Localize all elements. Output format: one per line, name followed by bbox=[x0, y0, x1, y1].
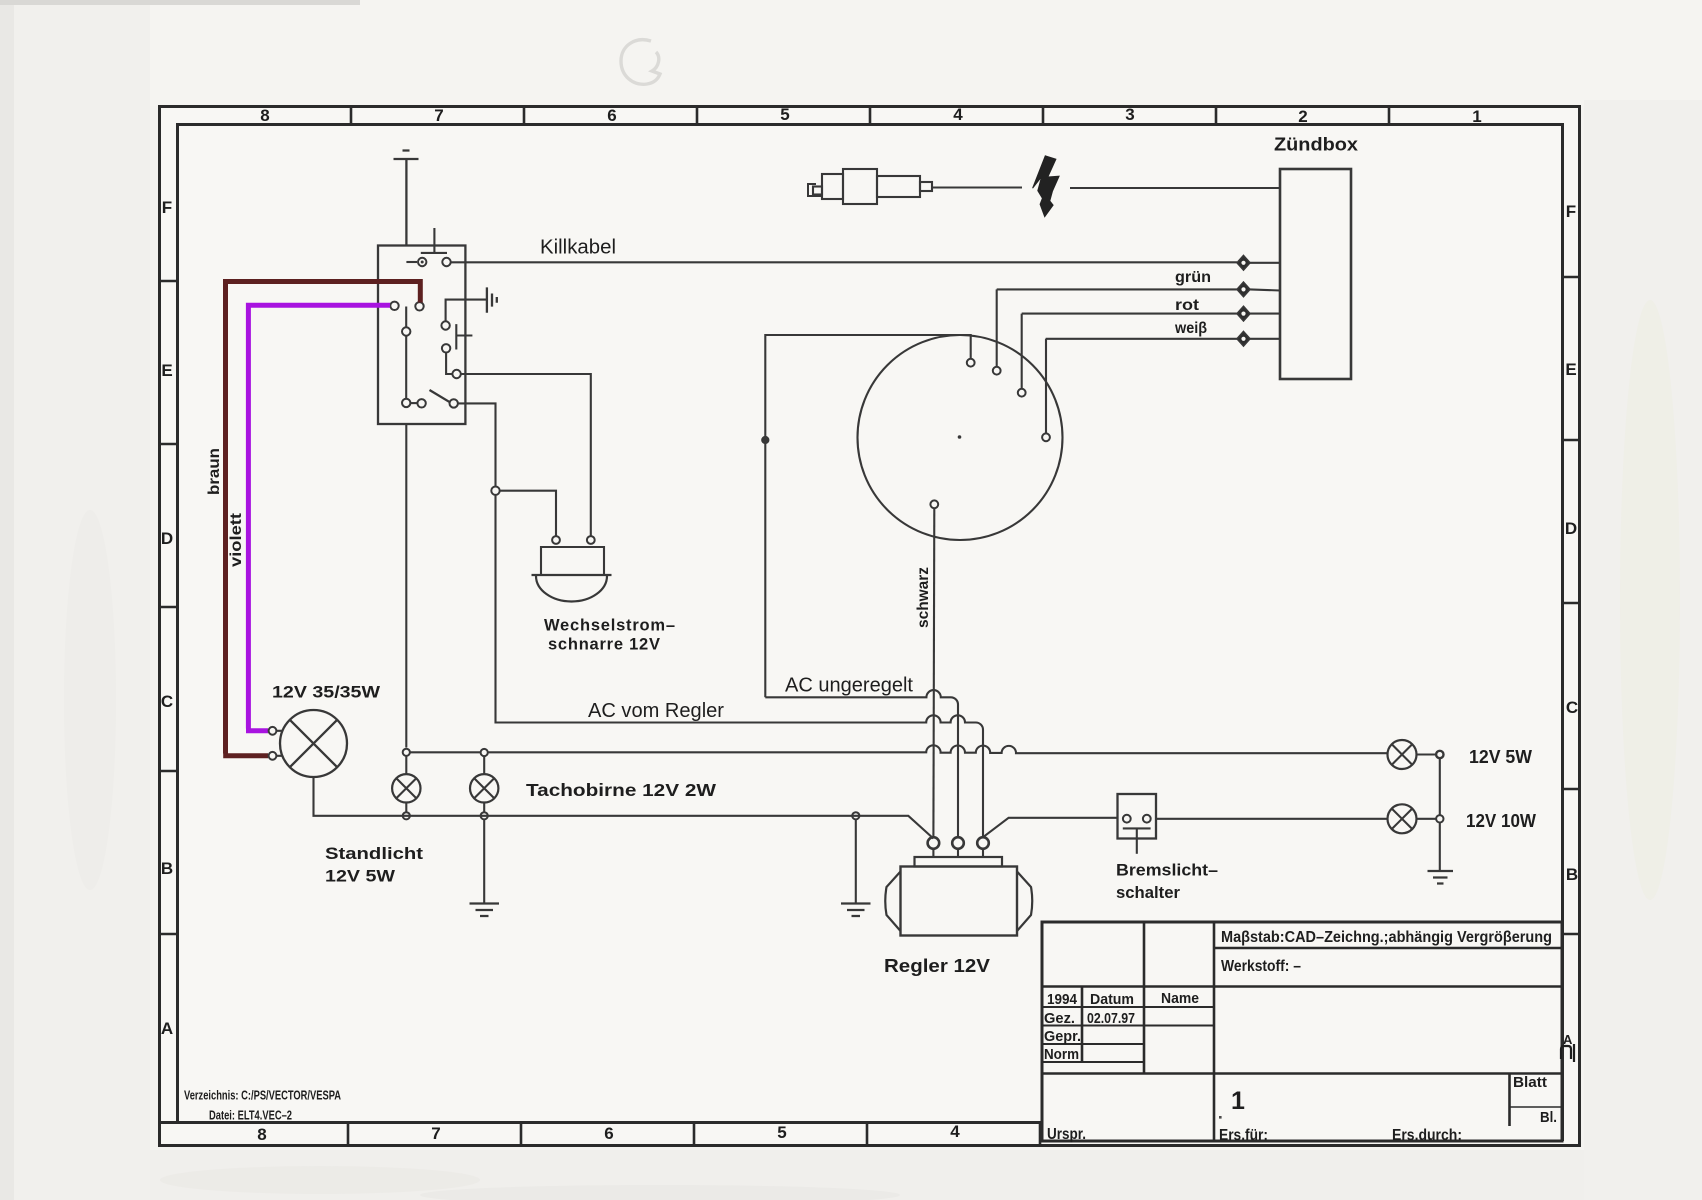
S1 terminal h bbox=[450, 399, 458, 407]
svg-text:Gez.: Gez. bbox=[1044, 1010, 1075, 1027]
node F (Tachobirne bottom) bbox=[481, 812, 488, 819]
S1 right branch: terminal i wire to ground G2 bbox=[446, 300, 486, 322]
wire T3 up to rot bbox=[1021, 314, 1023, 389]
lightning bolt (HV ignition symbol) bbox=[1033, 156, 1060, 217]
wire node B down to AC vom Regler run, to regulator pin 3 bbox=[496, 495, 984, 836]
S1 terminal b (Killkabel out) bbox=[442, 258, 450, 266]
svg-text:1: 1 bbox=[1472, 107, 1481, 126]
wire regulator pin 3 to brake light run bbox=[983, 818, 1117, 837]
ground G4 bbox=[841, 904, 871, 917]
headlight terminal 1 bbox=[269, 727, 277, 735]
svg-text:4: 4 bbox=[953, 105, 963, 124]
S1 terminal k (horn feed) bbox=[452, 370, 460, 378]
headlight lamp E1 12V 35/35W bbox=[280, 710, 347, 777]
svg-text:Verzeichnis: C:/PS/VECTOR/VESP: Verzeichnis: C:/PS/VECTOR/VESPA bbox=[184, 1089, 341, 1103]
magneto terminal T2 bbox=[993, 367, 1001, 375]
left row ticks bbox=[159, 281, 177, 934]
node C (switch wire joins lighting run) bbox=[403, 749, 410, 756]
svg-text:Blatt: Blatt bbox=[1513, 1075, 1547, 1091]
svg-text:1994: 1994 bbox=[1047, 991, 1078, 1008]
svg-text:D: D bbox=[161, 529, 173, 548]
svg-text:braun: braun bbox=[206, 448, 223, 495]
magneto / stator M1 bbox=[858, 335, 1063, 540]
regulator V1 terminal 3 bbox=[977, 837, 989, 849]
horn push button actuator bbox=[456, 324, 472, 349]
horn H1 (Wechselstromschnarre) bbox=[541, 547, 604, 575]
S2 terminal 2 bbox=[1143, 815, 1151, 823]
svg-text:violett: violett bbox=[228, 512, 245, 567]
svg-text:1: 1 bbox=[1231, 1087, 1245, 1115]
wire S1 e to bottom terminal f bbox=[405, 336, 407, 399]
svg-text:6: 6 bbox=[604, 1124, 613, 1143]
magneto terminal T4 bbox=[1042, 433, 1050, 441]
node B (junction at horn feed) bbox=[491, 487, 499, 495]
svg-text:A: A bbox=[1563, 1032, 1573, 1047]
node D (Tachobirne tap) bbox=[481, 749, 488, 756]
svg-text:12V 5W: 12V 5W bbox=[325, 867, 396, 886]
svg-text:Zündbox: Zündbox bbox=[1274, 134, 1359, 155]
S1 lever (light switch) bbox=[430, 390, 450, 402]
svg-text:Urspr.: Urspr. bbox=[1047, 1126, 1086, 1143]
svg-text:B: B bbox=[161, 859, 173, 878]
connector pin 2 (gruen) bbox=[1237, 282, 1250, 297]
S2 terminal 1 bbox=[1123, 815, 1131, 823]
svg-text:Ers.durch:: Ers.durch: bbox=[1392, 1127, 1462, 1144]
svg-text:E: E bbox=[161, 361, 172, 380]
stubs to headlight bbox=[276, 731, 281, 756]
svg-text:schwarz: schwarz bbox=[915, 567, 932, 628]
svg-text:AC vom Regler: AC vom Regler bbox=[588, 700, 724, 722]
svg-text:B: B bbox=[1566, 865, 1578, 884]
S1 terminal a (double ring) bbox=[418, 258, 426, 266]
directory note bbox=[184, 1089, 341, 1123]
svg-text:Name: Name bbox=[1161, 990, 1199, 1007]
wire rot (magneto T3 to Zuendbox) bbox=[1022, 313, 1237, 315]
wire E4 to node H bbox=[1417, 753, 1436, 755]
svg-text:C: C bbox=[161, 692, 173, 711]
push button actuator (kill button) bbox=[421, 228, 447, 253]
lamp E4 12V 5W bbox=[1388, 740, 1417, 769]
magneto terminal T5 (schwarz) bbox=[930, 500, 938, 508]
wire S1 k to horn right terminal bbox=[461, 374, 591, 536]
Zuendbox U1 bbox=[1280, 169, 1351, 379]
svg-text:Ers.für:: Ers.für: bbox=[1219, 1127, 1268, 1144]
wire braun (brown) bbox=[226, 282, 421, 754]
top column ticks bbox=[351, 106, 1389, 124]
wire S1 box bottom to node C bbox=[405, 424, 407, 748]
wire gruen (magneto T2 to Zuendbox) bbox=[997, 288, 1237, 290]
switch box S1 (handlebar light/kill switch) bbox=[378, 246, 465, 425]
horn terminal 2 bbox=[587, 536, 595, 544]
svg-text:C: C bbox=[1566, 698, 1578, 717]
svg-text:schalter: schalter bbox=[1116, 883, 1180, 902]
wire E5 to node I bbox=[1417, 818, 1437, 820]
S1 terminal c (violett) bbox=[390, 302, 398, 310]
svg-text:A: A bbox=[161, 1019, 173, 1038]
S2 contact bar bbox=[1123, 827, 1151, 829]
ground G3 bbox=[470, 904, 500, 917]
wire j to k bbox=[446, 353, 452, 375]
svg-text:Regler 12V: Regler 12V bbox=[884, 956, 990, 976]
connector pin 4 (weiss) bbox=[1237, 332, 1250, 347]
magneto terminal T3 bbox=[1018, 389, 1026, 397]
svg-text:6: 6 bbox=[607, 106, 616, 125]
svg-text:Norm: Norm bbox=[1044, 1046, 1079, 1063]
brake light switch S2 bbox=[1118, 794, 1157, 839]
wire spark plug to lightning bbox=[932, 186, 1022, 188]
ground G2 (right of switch, rotated) bbox=[487, 287, 497, 312]
S2 actuator stem bbox=[1136, 828, 1138, 853]
S1 terminal g bbox=[417, 399, 425, 407]
node G (regulator ground tap) bbox=[852, 812, 859, 819]
S1 contact arm pivot wire bbox=[405, 307, 407, 327]
wire ground into pin, S1 pin a bbox=[406, 261, 417, 263]
paper-size mark A bbox=[1561, 1032, 1574, 1062]
svg-text:8: 8 bbox=[257, 1125, 266, 1144]
wire T4 up to weiss bbox=[1045, 339, 1047, 434]
wire T1 loop: up, left, down to node A, to AC ungeregelt run bbox=[765, 335, 970, 697]
wire T2 up to gruen bbox=[996, 289, 998, 366]
wire S1 h to horn node B bbox=[458, 403, 496, 486]
svg-text:F: F bbox=[1566, 202, 1576, 221]
wire f-g link bbox=[410, 402, 417, 404]
svg-text:02.07.97: 02.07.97 bbox=[1087, 1010, 1135, 1027]
svg-text:Tachobirne 12V 2W: Tachobirne 12V 2W bbox=[526, 780, 717, 800]
wire node G to ground G4 bbox=[855, 819, 857, 903]
wire violett bbox=[248, 305, 390, 728]
svg-text:Wechselstrom–: Wechselstrom– bbox=[544, 617, 675, 635]
S1 terminal f bbox=[402, 399, 410, 407]
wire node H to ground G5 bbox=[1439, 758, 1441, 870]
lighting wire run (to 12V 5W lamp) with hops bbox=[410, 745, 1387, 753]
magneto terminal T1 bbox=[967, 359, 975, 367]
wire S2 to 12V 10W lamp bbox=[1156, 818, 1387, 820]
svg-text:4: 4 bbox=[950, 1122, 960, 1141]
wire Tachobirne to ground G3 bbox=[483, 819, 485, 903]
svg-text:5: 5 bbox=[780, 105, 789, 124]
ground G5 bbox=[1428, 871, 1454, 884]
svg-text:Bremslicht–: Bremslicht– bbox=[1116, 861, 1218, 880]
headlight terminal 2 bbox=[269, 752, 277, 760]
svg-text:Datei: ELT4.VEC–2: Datei: ELT4.VEC–2 bbox=[209, 1109, 292, 1123]
svg-text:E: E bbox=[1565, 360, 1576, 379]
svg-text:7: 7 bbox=[431, 1124, 440, 1143]
Standlicht lamp E2 bbox=[392, 774, 420, 802]
wire lightning to Zuendbox bbox=[1070, 187, 1280, 189]
svg-text:Gepr.: Gepr. bbox=[1044, 1028, 1081, 1045]
horn terminal 1 bbox=[552, 536, 560, 544]
svg-text:Werkstoff: –: Werkstoff: – bbox=[1221, 958, 1301, 975]
wire node B to horn left terminal bbox=[500, 491, 556, 536]
ground G1 above switch bbox=[394, 151, 419, 247]
node H bbox=[1436, 751, 1443, 758]
svg-text:Maβstab:CAD–Zeichng.;abhängig: Maβstab:CAD–Zeichng.;abhängig Vergröβeru… bbox=[1221, 929, 1552, 946]
svg-text:Standlicht: Standlicht bbox=[325, 844, 423, 863]
svg-text:7: 7 bbox=[434, 106, 443, 125]
title block bbox=[1042, 922, 1562, 1141]
wire node D to Tachobirne bbox=[483, 756, 485, 774]
svg-text:rot: rot bbox=[1175, 297, 1199, 314]
svg-text:5: 5 bbox=[777, 1123, 786, 1142]
bottom column ticks bbox=[348, 1123, 1040, 1146]
svg-text:AC ungeregelt: AC ungeregelt bbox=[785, 675, 913, 697]
svg-text:Bl.: Bl. bbox=[1540, 1110, 1557, 1126]
node E (Standlicht bottom) bbox=[403, 812, 410, 819]
S1 terminal e bbox=[402, 327, 410, 335]
svg-text:Datum: Datum bbox=[1090, 991, 1134, 1008]
wire weiss (magneto T4 to Zuendbox) bbox=[1046, 338, 1237, 340]
lamp E5 12V 10W bbox=[1388, 804, 1417, 833]
svg-text:2: 2 bbox=[1298, 107, 1307, 126]
connector pin 3 (rot) bbox=[1237, 306, 1250, 321]
S1 terminal i bbox=[441, 321, 449, 329]
wire node C to Standlicht bbox=[405, 756, 407, 774]
terminal stubs into regulator bbox=[933, 849, 983, 857]
regulator V1 terminal 1 bbox=[928, 837, 940, 849]
wire schwarz: magneto T5 down to regulator pin 1 bbox=[932, 508, 935, 836]
spark plug P1 bbox=[808, 169, 932, 204]
connector pin 1 (Killkabel) bbox=[1237, 256, 1250, 271]
svg-text:schnarre 12V: schnarre 12V bbox=[548, 636, 660, 654]
svg-text:grün: grün bbox=[1175, 269, 1211, 286]
node A (junction dot on loop) bbox=[762, 437, 769, 444]
svg-text:12V 5W: 12V 5W bbox=[1469, 747, 1532, 767]
svg-text:Killkabel: Killkabel bbox=[540, 236, 616, 259]
svg-text:D: D bbox=[1565, 519, 1577, 538]
Killkabel wire (switch to Zuendbox pin 1) bbox=[450, 261, 1237, 263]
lower ground wire run (headlight to regulator) bbox=[314, 777, 934, 839]
svg-text:12V 35/35W: 12V 35/35W bbox=[272, 683, 381, 702]
node I bbox=[1436, 815, 1443, 822]
S1 terminal d (braun) bbox=[415, 302, 423, 310]
svg-text:weiβ: weiβ bbox=[1174, 320, 1207, 337]
regulator V1 terminal 2 bbox=[952, 837, 964, 849]
svg-text:12V 10W: 12V 10W bbox=[1466, 811, 1536, 831]
regulator V1 (Regler 12V) body bbox=[915, 857, 1003, 867]
right row ticks bbox=[1562, 277, 1580, 934]
svg-text:8: 8 bbox=[260, 106, 269, 125]
wire AC ungeregelt: from loop, hop over schwarz wire, down to regulator pin 2 bbox=[765, 690, 958, 836]
scan curl artifact top middle bbox=[621, 40, 660, 85]
Tachobirne lamp E3 bbox=[470, 774, 498, 802]
S1 terminal j bbox=[442, 344, 450, 352]
svg-text:3: 3 bbox=[1125, 105, 1134, 124]
svg-text:F: F bbox=[162, 198, 172, 217]
